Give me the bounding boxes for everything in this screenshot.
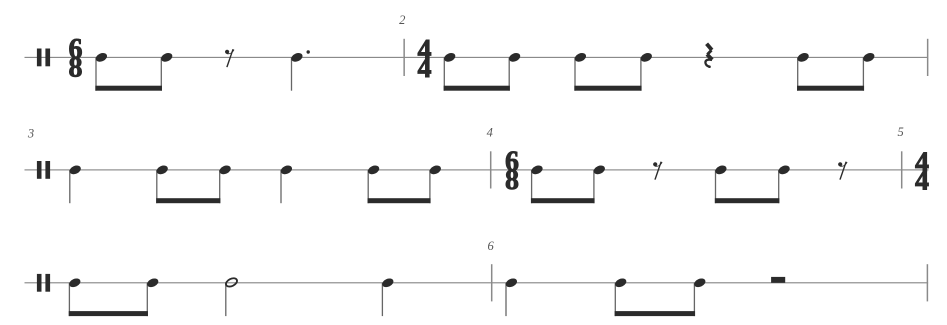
barline measure 2 bbox=[403, 39, 405, 76]
quarter note m3 beat 3 bbox=[279, 164, 293, 203]
half rest m6 bbox=[771, 277, 785, 283]
staff line 3 bbox=[25, 282, 929, 283]
percussion clef 2 bbox=[37, 161, 50, 179]
time signature 4/4 m2 bbox=[418, 35, 432, 84]
eighth rest m1 bbox=[225, 49, 234, 67]
barline measure 5 bbox=[901, 151, 903, 188]
svg-text:4: 4 bbox=[418, 53, 432, 84]
time signature 6/8 m1 bbox=[69, 34, 83, 84]
percussion clef 1 bbox=[37, 49, 50, 67]
beamed eighth pair m4 beat 2 bbox=[714, 164, 791, 203]
beamed eighth pair m6 bbox=[614, 277, 707, 316]
beamed eighth pair m2 notes 3-4 bbox=[573, 51, 653, 90]
beamed eighth pair m3 bbox=[155, 164, 232, 203]
beamed eighth pair m3 beat 4 bbox=[367, 164, 443, 203]
svg-text:4: 4 bbox=[915, 166, 929, 197]
svg-text:4: 4 bbox=[487, 126, 493, 140]
quarter note m3 beat 1 bbox=[68, 164, 82, 203]
courtesy time signature 4/4 end of system 2 bbox=[915, 148, 929, 197]
measure number 6 bbox=[487, 239, 494, 253]
measure number 2 bbox=[399, 13, 405, 27]
percussion clef 3 bbox=[37, 274, 50, 292]
svg-text:2: 2 bbox=[399, 13, 405, 27]
svg-text:6: 6 bbox=[487, 239, 494, 253]
beamed eighth pair m4 beat 1 bbox=[530, 164, 606, 203]
measure number 5 bbox=[897, 125, 903, 139]
eighth rest m4 first bbox=[653, 162, 662, 180]
measure number 4 bbox=[487, 126, 493, 140]
dotted quarter note m1 bbox=[290, 50, 310, 90]
quarter note m5 beat 4 bbox=[381, 277, 395, 316]
barline measure 4 bbox=[490, 151, 492, 188]
svg-text:3: 3 bbox=[27, 126, 34, 140]
svg-text:8: 8 bbox=[505, 165, 519, 196]
staff line 2 bbox=[25, 169, 929, 170]
barline end of system 1 bbox=[927, 39, 929, 76]
beamed eighth pair m1 notes 1-2 bbox=[94, 51, 173, 90]
beamed eighth pair m5 beat 1 bbox=[68, 277, 160, 316]
measure number 3 bbox=[27, 126, 34, 140]
time signature 6/8 m4 bbox=[505, 147, 519, 196]
quarter rest m2 bbox=[705, 44, 712, 68]
svg-text:5: 5 bbox=[897, 125, 903, 139]
eighth rest m4 second bbox=[838, 162, 847, 180]
quarter note m6 beat 1 bbox=[504, 277, 518, 316]
half note m5 bbox=[225, 277, 239, 317]
barline measure 6 bbox=[491, 264, 493, 301]
beamed eighth pair m2 notes 1-2 bbox=[443, 51, 522, 90]
beamed eighth pair m2 notes 5-6 bbox=[796, 51, 876, 90]
final barline bbox=[927, 264, 929, 301]
staff line 1 bbox=[25, 57, 928, 58]
svg-text:8: 8 bbox=[69, 53, 83, 84]
